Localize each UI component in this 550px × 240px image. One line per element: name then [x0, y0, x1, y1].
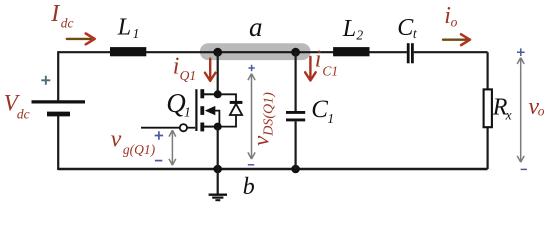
transistor Q1 body arrow: [205, 106, 216, 115]
wire right branch above Rx: [487, 52, 489, 89]
wire left branch above battery: [57, 51, 59, 100]
svg-text:L: L: [342, 16, 356, 42]
node a junction dot left: [213, 48, 222, 57]
ground symbol: [209, 195, 227, 201]
svg-text:C: C: [311, 96, 328, 123]
wire top rail right of Ct: [414, 51, 488, 53]
svg-text:1: 1: [327, 111, 334, 126]
transistor Q1 gate line: [195, 89, 197, 131]
svg-text:1: 1: [184, 105, 191, 120]
voltage arrow v_g(Q1): [169, 130, 176, 165]
svg-text:o: o: [451, 15, 458, 30]
transistor Q1 drain junction dot: [214, 90, 222, 98]
transistor Q1 source contact bar: [200, 123, 204, 132]
body diode top lead: [218, 94, 236, 102]
wire bottom rail to ground: [217, 169, 219, 194]
node b junction dot right: [291, 165, 300, 174]
minus mark v_o: [521, 168, 527, 170]
transistor Q1 body contact bar: [200, 106, 204, 115]
svg-text:i: i: [173, 53, 180, 79]
body diode triangle: [230, 104, 242, 115]
transistor Q1 source junction dot: [214, 123, 222, 131]
wire Q1 source to bottom rail: [217, 127, 219, 169]
wire top rail left of Ct: [58, 51, 407, 53]
svg-text:L: L: [117, 15, 131, 41]
capacitor C1 plate bottom: [286, 118, 305, 121]
body diode bottom lead: [218, 115, 236, 127]
wire right branch below Rx: [487, 127, 489, 169]
wire C1 branch lower: [295, 121, 297, 169]
minus mark v_DS: [248, 164, 254, 166]
node a highlight pill: [200, 43, 311, 60]
transistor Q1 drain stub: [204, 93, 218, 95]
svg-text:v: v: [111, 127, 122, 153]
svg-text:I: I: [50, 1, 60, 27]
current arrow i_C1: [305, 57, 316, 81]
current arrow i_o: [443, 34, 470, 45]
svg-text:C: C: [397, 15, 414, 41]
svg-text:2: 2: [356, 27, 363, 42]
transistor Q1 gate stub: [187, 127, 195, 129]
battery plus mark: [41, 76, 50, 85]
inductor L2: [333, 47, 369, 56]
plus mark v_g: [155, 131, 163, 139]
voltage arrow v_DS(Q1): [248, 74, 255, 159]
plus mark v_o: [517, 48, 525, 56]
node a junction dot right: [291, 48, 300, 57]
svg-text:x: x: [505, 108, 512, 123]
wire bottom rail: [58, 168, 487, 170]
current arrow i_Q1: [205, 59, 216, 81]
svg-text:a: a: [249, 12, 263, 42]
svg-text:dc: dc: [17, 107, 30, 122]
voltage arrow v_o: [517, 58, 524, 163]
svg-text:i: i: [315, 47, 322, 73]
svg-text:C1: C1: [322, 63, 338, 78]
capacitor Ct plate right: [411, 43, 414, 63]
svg-text:o: o: [538, 103, 545, 118]
transistor Q1 gate terminal circle: [180, 124, 187, 131]
svg-text:g(Q1): g(Q1): [123, 142, 156, 157]
minus mark v_g: [155, 160, 162, 162]
capacitor C1 plate top: [286, 111, 305, 114]
current arrow I_dc: [67, 34, 95, 45]
capacitor Ct plate left: [407, 43, 410, 63]
body diode cathode bar: [230, 101, 243, 104]
wire C1 branch upper: [295, 52, 297, 111]
transistor Q1 source stub: [204, 126, 218, 128]
plus mark v_DS: [248, 65, 254, 71]
transistor Q1 body wire: [214, 111, 219, 125]
resistor Rx box: [484, 89, 492, 127]
transistor Q1 gate lead wire: [141, 127, 180, 129]
battery Vdc negative plate: [47, 112, 70, 117]
node b junction dot left: [213, 165, 222, 174]
svg-text:Q: Q: [166, 88, 186, 118]
svg-text:1: 1: [133, 26, 140, 41]
svg-text:dc: dc: [61, 15, 74, 30]
wire left branch below battery: [57, 116, 59, 170]
inductor L1: [110, 47, 146, 56]
svg-text:b: b: [243, 174, 255, 200]
wire Q1 drain from node a: [217, 52, 219, 94]
battery Vdc positive plate: [32, 100, 86, 103]
svg-text:Q1: Q1: [180, 68, 197, 83]
transistor Q1 drain contact bar: [200, 89, 204, 98]
